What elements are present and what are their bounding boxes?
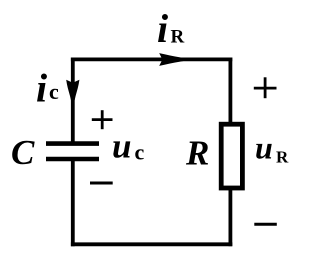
wire right lower (resistor to bottom) [228,189,232,246]
svg-text:u: u [112,127,131,166]
label i_c [36,66,59,111]
polarity minus for uR [254,223,276,226]
polarity minus for uC [90,182,113,185]
capacitor C bottom plate [46,157,99,162]
svg-text:R: R [276,148,289,167]
label i_R [157,6,185,51]
current arrow iR on top wire [159,53,187,66]
polarity plus for uR [254,77,277,98]
svg-text:c: c [49,79,59,104]
svg-text:i: i [36,66,47,111]
label u_c [112,127,145,166]
svg-text:i: i [157,6,168,51]
wire left upper (node A to capacitor) [71,58,75,144]
current arrow iC on left wire [66,80,79,104]
svg-text:C: C [11,133,35,172]
svg-text:c: c [135,139,145,164]
resistor R body [221,124,242,188]
svg-text:R: R [171,27,185,48]
wire bottom [71,242,232,246]
wire left lower (capacitor to bottom) [71,160,75,247]
svg-text:u: u [255,130,273,166]
wire top [71,58,232,62]
polarity plus for uC [92,110,113,129]
capacitor C top plate [46,141,99,146]
wire right upper (top corner to resistor) [228,58,232,124]
svg-text:R: R [185,134,209,173]
label u_R [255,130,289,167]
